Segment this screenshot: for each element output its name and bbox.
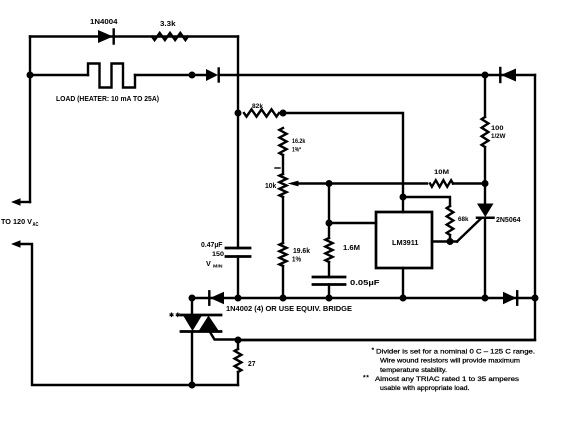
wire load row left segment <box>30 74 88 76</box>
svg-text:10k: 10k <box>265 183 276 190</box>
label 68k <box>458 216 469 223</box>
node junction bottom bus / right bus <box>532 295 539 302</box>
resistor 3.3k <box>152 33 188 40</box>
node junction feedback / 1.6M branch <box>326 180 333 187</box>
label 82k <box>252 103 263 110</box>
wire 16.2k to pot <box>282 155 284 174</box>
svg-text:1%: 1% <box>292 257 302 264</box>
wire SCR anode lead <box>484 184 486 205</box>
wire pot bottom to 19.6k <box>282 197 284 243</box>
svg-text:Almost any TRIAC rated 1 to 35: Almost any TRIAC rated 1 to 35 amperes <box>375 376 520 383</box>
node junction bottom bus / 0.47uF <box>235 295 242 302</box>
svg-text:3.3k: 3.3k <box>160 21 176 28</box>
svg-text:Wire wound resistors will prov: Wire wound resistors will provide maximu… <box>380 358 521 365</box>
node junction left vertical / load row <box>27 72 34 79</box>
label 0.47uF 150 VMIN <box>201 242 224 270</box>
wire right vertical bus <box>238 75 535 340</box>
svg-text:0.05µF: 0.05µF <box>350 280 380 287</box>
potentiometer 10k <box>279 174 286 197</box>
triac Q1 <box>181 315 221 333</box>
svg-text:MIN: MIN <box>213 264 223 270</box>
svg-text:temperature stability.: temperature stability. <box>380 367 447 374</box>
op-amp U1 LM3911 <box>376 212 432 268</box>
node junction 82k right / divider top <box>280 110 287 117</box>
resistor 100 1/2W <box>482 117 489 147</box>
resistor 16.2k <box>279 128 286 155</box>
label 1N4002 (4) OR USE EQUIV. BRIDGE <box>226 306 352 313</box>
label 0.05uF <box>350 280 380 287</box>
node junction feedback / SCR anode <box>482 180 489 187</box>
node junction bottom-left bus / TRIAC <box>189 382 196 389</box>
label 100 1/2W <box>491 125 506 140</box>
svg-text:V: V <box>206 259 211 268</box>
node junction bottom bus / SCR cathode <box>482 295 489 302</box>
svg-text:1N4004: 1N4004 <box>90 19 118 26</box>
wire SCR gate diagonal <box>457 219 481 242</box>
wire 10M to SCR anode node <box>453 182 485 184</box>
resistor 1.6M <box>325 238 332 262</box>
svg-text:10M: 10M <box>434 169 449 176</box>
wire TRIAC anode lead <box>191 298 193 315</box>
resistor 27 <box>235 349 242 372</box>
wire SCR cathode to bottom bus <box>484 218 486 298</box>
node junction gate / 27 ohm <box>235 337 242 344</box>
wire TRIAC gate <box>210 332 238 340</box>
wire 27 ohm top lead <box>237 340 239 349</box>
svg-text:1N4002 (4) OR USE EQUIV. BRIDG: 1N4002 (4) OR USE EQUIV. BRIDGE <box>226 306 352 313</box>
svg-text:✱ ✱: ✱ ✱ <box>169 312 180 319</box>
load (heater) square-wave symbol <box>88 64 135 88</box>
wire 82k node to LM3911 V+ corner <box>283 113 403 212</box>
label 10k <box>265 183 276 190</box>
label 3.3k <box>160 21 176 28</box>
label 16.2k 1%* <box>292 138 306 154</box>
wire bottom bus <box>192 297 535 299</box>
diode D1 1N4004 <box>98 30 114 44</box>
footnote text block <box>363 347 535 392</box>
label TO 120 VAC <box>1 217 39 228</box>
diode D3 bridge top-right 1N4002 <box>500 68 516 82</box>
label 1.6M <box>343 245 360 252</box>
label LOAD (HEATER: 10 mA TO 25A) <box>56 94 160 103</box>
capacitor C2 0.05uF <box>313 277 345 298</box>
svg-text:0.47µF: 0.47µF <box>201 242 223 249</box>
wire LM3911 bottom pin <box>402 268 404 298</box>
svg-text:LOAD (HEATER: 10 mA TO 25A): LOAD (HEATER: 10 mA TO 25A) <box>56 94 160 103</box>
svg-text:usable with appropriate load.: usable with appropriate load. <box>380 385 470 392</box>
wire left vertical from top bus to AC arrow 1 <box>29 37 31 203</box>
wire AC terminal 1 horizontal <box>19 201 30 203</box>
svg-text:AC: AC <box>33 222 39 228</box>
wire 1.6M to 0.05uF cap <box>328 262 330 277</box>
node junction bottom bus / LM3911 gnd <box>400 295 407 302</box>
svg-text:19.6k: 19.6k <box>293 248 310 255</box>
svg-text:150: 150 <box>212 251 224 258</box>
svg-text:1/2W: 1/2W <box>491 133 506 140</box>
wire gate bus to right bus <box>238 339 535 341</box>
diode D4 bridge bottom-left 1N4002 <box>209 291 224 304</box>
wire load row right segment <box>219 74 535 76</box>
svg-text:* *: * * <box>363 375 369 382</box>
wire 100 ohm top lead <box>484 75 486 117</box>
label 10M <box>434 169 449 176</box>
resistor 68k <box>447 206 454 235</box>
wire top bus right corner down <box>237 37 239 249</box>
node junction LM3911 input <box>326 220 333 227</box>
node junction bottom bus / divider <box>280 295 287 302</box>
svg-text:TO 120 V: TO 120 V <box>1 217 32 226</box>
label 2N5064 <box>496 217 521 224</box>
wire LM3911 left pin <box>329 222 376 224</box>
resistor 19.6k <box>279 243 286 266</box>
svg-text:1%*: 1%* <box>292 147 301 154</box>
svg-text:68k: 68k <box>458 216 469 223</box>
node junction output / 68k <box>447 238 454 245</box>
label ** TRIAC footnote mark <box>169 312 180 319</box>
wire AC terminal 2 to bottom-left bus <box>19 244 238 385</box>
svg-text:1.6M: 1.6M <box>343 245 360 252</box>
node junction load row / 100 ohm branch <box>482 72 489 79</box>
wire wiper feedback row <box>297 182 427 184</box>
svg-text:2N5064: 2N5064 <box>496 217 521 224</box>
resistor 10M <box>430 180 453 187</box>
svg-text:82k: 82k <box>252 103 263 110</box>
svg-text:Divider is set for a nominal 0: Divider is set for a nominal 0 C – 125 C… <box>376 349 535 356</box>
thyristor Q2 2N5064 <box>477 204 494 218</box>
label 27 <box>248 361 256 368</box>
wire load to node D2 <box>135 74 206 76</box>
wire top bus <box>30 35 238 37</box>
potentiometer wiper arrow <box>288 181 299 187</box>
svg-text:16.2k: 16.2k <box>292 138 306 145</box>
svg-text:LM3911: LM3911 <box>392 238 419 247</box>
wire 27 ohm bottom lead <box>237 372 239 385</box>
wire 68k top branch <box>403 197 450 206</box>
wire 100 ohm to SCR anode node <box>484 147 486 184</box>
wire TRIAC lower lead to bottom-left bus <box>191 332 193 386</box>
node junction V+ line / 68k branch <box>400 194 407 201</box>
node junction load row / TRIAC branch <box>189 72 196 79</box>
svg-text:27: 27 <box>248 361 256 368</box>
tick mark left of pot <box>275 167 280 169</box>
node junction 82k left <box>235 110 242 117</box>
AC terminal arrow 2 <box>11 240 21 248</box>
capacitor C1 0.47uF <box>226 248 250 298</box>
label 19.6k 1% <box>292 248 310 264</box>
resistor 82k <box>244 109 279 116</box>
AC terminal arrow 1 <box>11 198 21 206</box>
wire 68k bottom lead <box>449 235 451 242</box>
svg-text:*: * <box>372 347 375 354</box>
wire LM3911 output pin <box>432 240 457 242</box>
svg-text:100: 100 <box>491 125 504 132</box>
node junction bottom bus / 0.05uF <box>326 295 333 302</box>
wire feedback node down to LM3911 input node <box>328 184 330 239</box>
node junction bottom bus / TRIAC <box>189 295 196 302</box>
diode D5 bridge bottom-right 1N4002 <box>503 291 517 304</box>
diode D2 bridge top-left 1N4002 <box>206 69 219 82</box>
wire 19.6k to bottom bus <box>282 266 284 298</box>
label 1N4004 <box>90 19 118 26</box>
